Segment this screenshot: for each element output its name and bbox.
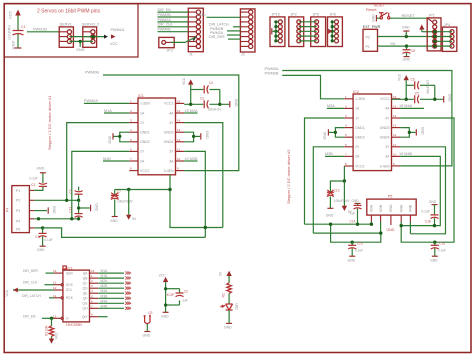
svg-text:16: 16 [177,99,181,103]
QA wire [98,272,124,274]
svg-text:3A: 3A [169,159,174,163]
gnd bar IC1 cluster [229,101,231,107]
IC2 pin names left [355,97,365,168]
junction M3 loop left [329,223,332,226]
capacitor C4 [191,86,220,105]
junction C15 top [351,241,354,244]
svg-text:100uF/6V: 100uF/6V [8,25,12,40]
svg-text:M1A: M1A [101,269,109,273]
svg-text:DIR_LATCH: DIR_LATCH [22,294,41,298]
svg-text:VCC: VCC [397,73,401,81]
IC2 pin numbers right [393,95,397,166]
wire DIR_LATCH [233,26,240,28]
wire IC2 3Y route [400,147,445,234]
svg-text:PWM2B: PWM2B [158,13,172,17]
svg-text:P1: P1 [16,189,20,193]
svg-text:GND: GND [108,135,112,143]
svg-text:P3: P3 [16,209,20,213]
junction M rail [168,188,171,191]
gnd bar IC2 right [415,129,417,135]
svg-text:C7: C7 [117,190,121,194]
svg-text:C9: C9 [69,189,73,193]
svg-text:15 M2A: 15 M2A [185,109,199,113]
terminal stubs P5 [371,215,410,225]
svg-text:14: 14 [393,114,397,118]
wire PWM0B top [158,31,189,33]
VCC arrow IC2 cluster [404,75,409,99]
svg-text:Stepper / 2 DC motor driver #1: Stepper / 2 DC motor driver #1 [47,95,52,150]
svg-text:VCC2: VCC2 [355,164,364,168]
svg-text:4A: 4A [385,107,390,111]
junction servo row2 [91,35,94,38]
svg-text:G: G [66,317,69,321]
wire M3A [327,107,344,109]
gnd bracket IC1 left [114,132,130,142]
wire servo row2 [69,36,104,38]
svg-text:GND: GND [326,213,334,217]
gnd bar C12 [40,245,46,247]
svg-text:C13: C13 [334,188,340,192]
vcc arrow JP8 [328,29,332,34]
wire M2B long route [43,228,206,238]
junction VCC2 IC2 [343,179,346,182]
servo section box [4,4,138,57]
svg-text:100uF/16V: 100uF/16V [334,199,350,203]
wire DIR_CLK [158,26,189,28]
chip IC3 74HC595 [63,270,90,322]
gnd bar C13 [327,207,333,209]
svg-text:10: 10 [177,157,181,161]
header J6 (digital pins) [188,8,203,52]
svg-text:2Y: 2Y [355,145,360,149]
gnd bar C8 [404,56,410,58]
capacitor C16 [431,242,439,256]
gnd bar IC3P [163,311,169,313]
wire IC2 1Y route [305,118,345,224]
svg-text:C2: C2 [184,290,188,294]
svg-text:GND: GND [430,259,438,263]
svg-text:PWM1A: PWM1A [111,28,125,32]
QD wire [98,287,124,289]
svg-text:13: 13 [393,124,397,128]
gnd bracket IC2 right [400,128,415,138]
svg-text:GND: GND [37,248,45,252]
svg-text:RESET: RESET [402,13,416,18]
svg-text:3-4EN: 3-4EN [380,164,390,168]
LED chain VCC arrow [226,271,231,283]
svg-text:J2: J2 [241,53,245,57]
svg-text:GND: GND [37,166,45,170]
IC2 pin names right [380,97,391,168]
svg-text:2Y: 2Y [140,150,145,154]
svg-text:M3B: M3B [325,152,333,156]
wire M3 cap left loop [331,224,381,242]
wire M2A stub [184,112,197,114]
svg-text:PWM1B: PWM1B [33,28,47,32]
svg-text:0.1uF: 0.1uF [438,248,446,252]
svg-text:4Y: 4Y [385,116,390,120]
vcc bus JP8 [331,20,335,42]
svg-text:1A: 1A [140,111,145,115]
svg-text:IC3: IC3 [67,266,73,270]
VCC symbol top-left [15,10,21,31]
svg-text:13: 13 [177,128,181,132]
wire M4B route [400,156,440,225]
svg-text:M4A: M4A [101,299,109,303]
svg-text:PWM0A: PWM0A [84,99,98,103]
junction C14 term [356,223,359,226]
svg-text:VCC: VCC [55,332,59,340]
wire M rail left [115,189,170,191]
svg-text:QH: QH [83,307,89,311]
header JP5 [311,17,326,47]
svg-text:EXT_PWR: EXT_PWR [363,25,381,29]
junction C cluster 2 [218,103,221,106]
capacitor C7 [111,190,119,217]
svg-text:C3: C3 [31,183,35,187]
IC1 pins left stubs [129,103,138,170]
svg-text:VCC: VCC [5,289,9,297]
junction 3Y rail [204,226,207,229]
svg-text:11: 11 [177,147,180,151]
svg-text:QE: QE [83,292,89,296]
IC2 pins right stubs [392,99,401,166]
svg-text:J1: J1 [189,53,193,57]
svg-text:QG: QG [82,302,88,306]
wire DIR_CLK2 [45,284,55,286]
svg-text:1-2EN: 1-2EN [355,97,365,101]
VCC arrow left [13,288,18,293]
wire P1 vin [378,45,435,47]
wire GND J7 [207,16,241,18]
junction M4B [400,224,403,227]
wire servo row3 [69,40,93,42]
svg-text:LED: LED [235,304,239,311]
svg-text:1-2EN: 1-2EN [140,102,150,106]
terminal stubs P4 [29,190,34,228]
gnd bar IC1 left [112,133,114,139]
wire M4A stub [400,107,424,109]
svg-text:PWM0A: PWM0A [265,67,279,71]
svg-text:3-4EN: 3-4EN [164,169,174,173]
svg-text:JP2: JP2 [291,13,297,17]
svg-text:M2A: M2A [101,279,109,283]
svg-text:JP3: JP3 [167,49,173,53]
capacitor C12 [39,228,47,246]
svg-text:15 M4A: 15 M4A [399,104,413,108]
svg-text:P2: P2 [366,36,370,40]
capacitor C17 hooks [164,287,180,307]
wire P2 gnd net [378,36,435,38]
gnd stub P2 [405,31,407,36]
op chip IC2 L293D [353,94,391,171]
net flags column [125,272,131,310]
capacitor C8 [403,46,411,57]
svg-text:P5: P5 [388,195,392,199]
gnd bracket IC2 left [329,128,344,138]
IC2 pins left stubs [344,99,353,166]
VCC arrow IC1 cluster [188,79,193,104]
svg-text:10 M2B: 10 M2B [185,157,199,161]
capacitor C9 [75,187,83,201]
svg-text:VCC: VCC [110,42,118,46]
gnd bar IC2 cluster [443,96,445,102]
wire PWM2B b [227,30,240,32]
svg-text:2A: 2A [140,159,145,163]
svg-text:16: 16 [393,95,397,99]
wire PWM0A to pin1 [84,102,129,104]
junction P4 [37,217,40,220]
svg-text:14: 14 [177,119,181,123]
svg-text:0.1uF: 0.1uF [422,209,430,213]
wire DIR_EN2 [42,317,54,319]
svg-text:R2: R2 [221,293,225,297]
svg-text:GND: GND [161,314,169,318]
svg-text:C14: C14 [350,220,356,224]
svg-text:M3A: M3A [370,204,374,212]
svg-text:4Y: 4Y [169,121,174,125]
svg-text:C15: C15 [357,242,363,246]
wire DIR_LATCH2 [49,297,54,299]
wire M4B cap right loop and IC2 4Y route [400,118,454,242]
svg-text:PWM0B: PWM0B [158,28,172,32]
junction P2 1Y [65,199,68,202]
svg-text:15: 15 [177,109,181,113]
svg-text:SER: SER [66,271,73,275]
IC3P vcc arrow [163,277,168,312]
svg-text:GND: GND [76,48,85,52]
capacitor C1 [13,31,24,49]
svg-text:GND: GND [352,199,360,203]
junction C9 [77,199,80,202]
svg-text:RCK: RCK [66,296,74,300]
svg-text:VCC: VCC [8,10,13,19]
svg-text:74HC595N: 74HC595N [66,323,83,327]
svg-text:0.1uF: 0.1uF [44,238,52,242]
svg-text:GND: GND [448,94,452,102]
wire IC2 2Y route [313,147,344,233]
wire M3A to terminal [305,222,372,225]
wire VCC to SCL [13,289,54,291]
capacitor C13 [327,190,334,208]
svg-text:DIR_EN: DIR_EN [158,8,172,12]
svg-text:P4: P4 [6,208,10,212]
connector SERV1 [59,27,73,47]
gnd bar C9 C11 [90,205,92,211]
svg-text:QC: QC [83,282,89,286]
svg-text:1A: 1A [355,107,360,111]
connector SERVO_2 [83,27,97,47]
IC3 clock bubbles [61,284,63,320]
svg-text:P1: P1 [366,45,370,49]
svg-text:3A: 3A [385,155,390,159]
header JP8 (vcc bus) [328,17,343,47]
junction DIR_EN [50,317,53,320]
resistor R2 [227,283,232,304]
svg-text:DIR_CLK: DIR_CLK [158,23,174,27]
wire VCC2 IC2 down [330,166,344,192]
gnd bar C16 [432,255,438,257]
svg-text:GND: GND [94,203,98,211]
svg-text:VCC: VCC [159,274,167,278]
svg-text:DIR_EN: DIR_EN [23,314,36,318]
wire 1Y M2 route [67,123,130,201]
svg-text:11: 11 [393,143,396,147]
svg-text:JP15: JP15 [272,13,280,17]
svg-text:VCC2: VCC2 [140,169,149,173]
wires JP2-JP5 [299,22,317,41]
svg-text:IC3P: IC3P [167,293,175,297]
svg-text:M3A: M3A [101,289,109,293]
wire PWM2A [158,21,189,23]
header JP1 [427,18,441,51]
junction P2 [405,35,408,38]
capacitor C18 right of terminal [429,200,439,225]
junction M3A term [370,223,373,226]
gnd bus JP15 [274,20,278,42]
wire P3 gnd [34,210,47,212]
svg-text:IC1: IC1 [138,94,144,98]
svg-text:GND: GND [198,13,206,17]
IC1 pin numbers right [177,99,181,170]
junction IC2 cluster 2 [433,98,436,101]
svg-text:R1 10K: R1 10K [45,324,49,336]
wire DIR_SER [228,38,240,40]
VCC down arrow M rail left [126,188,131,220]
wire PWM0B to IC1 pin9 [103,75,239,171]
svg-text:GND: GND [224,326,232,330]
terminal block P4 M1 M2 [12,186,30,233]
gnd bar IC1 right [200,133,202,139]
svg-text:GND: GND [52,206,56,214]
IC2 pin numbers left [345,95,347,166]
GND drop servo [79,41,81,46]
svg-text:IC2: IC2 [353,90,359,94]
svg-text:GND: GND [429,200,437,204]
gnd hook C9 C11 [77,206,90,209]
svg-text:2 Servos on 16bit PWM pins: 2 Servos on 16bit PWM pins [37,9,101,15]
svg-text:GND4: GND4 [164,140,174,144]
IC3 name [63,266,72,270]
svg-text:M4B: M4B [101,304,109,308]
arrow servo out [104,35,108,39]
svg-text:GND1: GND1 [355,126,365,130]
svg-text:P5: P5 [16,228,20,232]
svg-text:0.1uF: 0.1uF [30,176,38,180]
junction GND servo [79,40,82,43]
wire M3B [325,155,344,157]
svg-text:C4: C4 [209,81,213,85]
svg-text:PWM0B: PWM0B [85,71,99,75]
QB wire [98,277,124,279]
IC3 right stubs [90,273,99,317]
capacitor C5 [392,95,444,103]
svg-text:C12: C12 [35,235,41,239]
svg-text:GND: GND [389,204,393,212]
junction C11 [77,217,80,220]
svg-text:PWM0B: PWM0B [265,72,279,76]
IC1 pins right stubs [176,103,185,170]
wire M4A to terminal [409,222,411,234]
LED D1 [220,304,232,323]
svg-text:C5: C5 [415,91,419,95]
gnd bar test point [144,331,150,333]
svg-text:QF: QF [83,297,88,301]
svg-text:GND1: GND1 [140,131,150,135]
capacitor C14 [352,199,362,224]
svg-text:VIN: VIN [390,42,396,46]
gnd bar C3 [40,172,46,174]
svg-text:100uF/16V: 100uF/16V [117,200,133,204]
svg-text:12: 12 [177,138,181,142]
gnd bar switch [375,15,377,21]
wire M1A [104,112,129,114]
svg-text:Reset: Reset [366,7,377,12]
svg-text:10: 10 [393,152,397,156]
header JP4 [442,27,456,51]
svg-text:P2: P2 [16,199,20,203]
VCC arrow right servo [111,34,116,38]
svg-text:Q1: Q1 [149,311,153,315]
connector JP3 [159,37,174,47]
svg-text:VCC: VCC [182,77,186,85]
gnd bar LED [226,322,232,324]
wire DIR_SER2 [46,272,55,274]
svg-text:3Y: 3Y [385,145,390,149]
svg-text:GND2: GND2 [355,136,365,140]
gnd bar C15 [349,255,355,257]
wire P1 to C3 [34,187,43,191]
svg-text:SERVO_2: SERVO_2 [82,22,99,26]
VCC arrow jp1 [419,24,435,31]
svg-text:JP5: JP5 [313,13,319,17]
svg-text:QH': QH' [82,315,88,319]
wire P4 [34,218,78,220]
svg-text:GND: GND [403,58,411,62]
QE wire [98,292,124,294]
svg-text:15: 15 [393,104,397,108]
capacitor C2 [184,100,229,108]
junction arrow JP3 [193,37,197,42]
svg-text:M1A: M1A [104,109,112,113]
svg-text:QA: QA [83,271,89,275]
svg-text:JP8: JP8 [330,13,336,17]
gnd bar P3 [47,207,49,213]
junction C16 top [433,241,436,244]
terminal EXT_PWR [363,29,378,51]
gnd bar IC2 left [327,129,329,135]
svg-text:Stepper / 2 DC motor driver #2: Stepper / 2 DC motor driver #2 [286,149,291,204]
svg-text:GND: GND [420,127,424,135]
QH wire [98,307,124,309]
svg-text:M4B: M4B [409,204,413,212]
wire M2B stub [184,160,197,162]
svg-text:GND3: GND3 [164,131,174,135]
svg-text:2A: 2A [355,155,360,159]
svg-text:DIR_SER: DIR_SER [23,269,38,273]
svg-text:SCL: SCL [66,288,73,292]
svg-text:GND: GND [234,99,238,107]
IC1 pin names right [164,102,175,173]
svg-text:GND3: GND3 [380,126,390,130]
junction IC2 cluster 1 [405,98,408,101]
svg-text:M3B: M3B [379,204,383,212]
svg-text:C11: C11 [69,207,73,213]
wire M3B to terminal [313,222,380,234]
gnd bracket IC1 right [184,132,200,142]
svg-text:DIR_CLK: DIR_CLK [23,281,38,285]
QH prime wire [98,316,107,318]
